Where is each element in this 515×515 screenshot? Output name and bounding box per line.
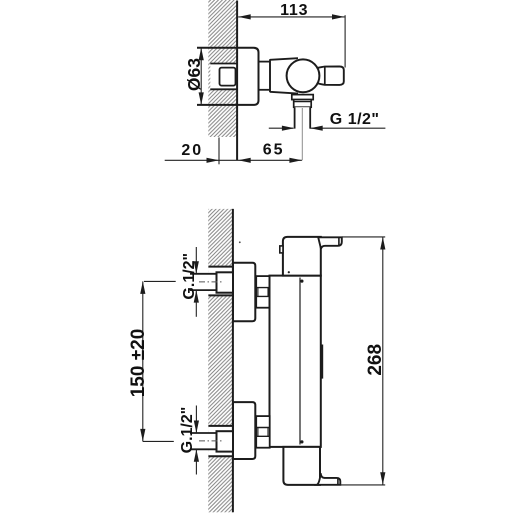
svg-text:150 ±20: 150 ±20 <box>128 329 149 398</box>
dimension Ø63 bottom arrow <box>199 92 204 105</box>
bar inner line <box>299 278 301 445</box>
svg-text:G.1/2": G.1/2" <box>179 407 196 454</box>
top cap (cartridge) <box>283 237 321 276</box>
cap screw dot <box>288 271 290 273</box>
268 top arrow <box>380 237 385 250</box>
top union centerline <box>199 281 224 283</box>
svg-text:113: 113 <box>280 2 308 19</box>
wall hole top edge (lower union) <box>208 425 233 427</box>
lever handle <box>316 67 344 85</box>
collar tube <box>270 58 298 93</box>
wall gap at top union <box>208 267 233 296</box>
bottom supply pipe <box>190 433 217 449</box>
dimension 113 right arrow <box>332 14 345 19</box>
top rosette <box>233 263 255 322</box>
top union nut <box>217 272 234 292</box>
svg-text:20: 20 <box>181 142 203 159</box>
bottom hex connector <box>256 416 270 448</box>
G 1/2 right arrow <box>310 126 323 131</box>
G.1/2 top dim line upper tail <box>195 247 197 274</box>
G.1/2 bottom dim line upper tail <box>195 406 197 433</box>
extension line at lever tip <box>344 15 346 67</box>
in-wall body bottom line <box>210 88 237 90</box>
bottom hex facet lines <box>256 428 270 437</box>
dimension 113 left arrow <box>238 14 251 19</box>
bottom hex facet insets <box>258 428 268 437</box>
cap left tab <box>280 246 283 253</box>
wall recess white notch for in-wall body <box>210 64 237 90</box>
150 bottom extension <box>143 440 174 442</box>
svg-text:Ø63: Ø63 <box>184 58 204 91</box>
G.1/2 top lower arrow <box>194 290 199 303</box>
screw dot bottom <box>300 440 303 443</box>
svg-text:G.1/2": G.1/2" <box>181 253 198 300</box>
G.1/2 bottom lower arrow <box>194 449 199 462</box>
bottom lever (end view) <box>317 473 340 485</box>
handle ball <box>287 59 320 92</box>
20 extension line <box>218 138 220 165</box>
268 bottom extension <box>340 484 385 486</box>
wall hole top edge (upper union) <box>208 266 233 268</box>
right edge tick <box>321 345 323 379</box>
outlet flange <box>292 95 313 100</box>
neck top line <box>259 61 271 63</box>
wall hole bottom edge (lower union) <box>208 455 233 457</box>
G 1/2 dim left segment <box>269 127 294 129</box>
in-wall body top line <box>210 63 237 65</box>
arrow at 20 left <box>207 158 220 163</box>
dimension 150 line <box>142 281 144 441</box>
150 bottom arrow <box>140 429 145 442</box>
G.1/2 top upper arrow <box>194 261 199 274</box>
body bar <box>270 276 321 447</box>
wall hole bottom edge (upper union) <box>208 294 233 296</box>
268 top extension <box>342 236 385 238</box>
wall gap at bottom union <box>208 426 233 456</box>
outlet nut <box>294 100 312 108</box>
arrow at 65 right <box>289 158 302 163</box>
escutcheon plate outline <box>197 48 259 105</box>
bottom rosette <box>233 402 255 459</box>
pipe centerline <box>301 108 303 160</box>
dimension 20/65 line <box>165 159 302 161</box>
svg-text:G 1/2": G 1/2" <box>330 111 380 128</box>
top lever (end view) <box>318 237 342 249</box>
wall hatch (top view wall section) <box>208 0 237 137</box>
top hex facet insets <box>258 288 268 297</box>
dimension 268 line <box>382 237 384 485</box>
bottom union nut <box>217 431 234 451</box>
top supply pipe <box>190 274 217 290</box>
top lever inner line <box>338 237 340 245</box>
wall face line <box>236 1 238 161</box>
G 1/2 dim right segment <box>310 127 385 129</box>
lever step line <box>324 67 326 85</box>
dimension Ø63 top arrow <box>199 48 204 61</box>
G 1/2 left arrow <box>282 126 295 131</box>
G.1/2 top dim line lower tail <box>195 290 197 317</box>
150 top arrow <box>140 281 145 294</box>
stray mark <box>239 241 241 243</box>
150 top extension <box>144 280 176 282</box>
bottom lever inner line <box>337 478 339 485</box>
dimension 113 line <box>238 16 344 18</box>
in-wall square fitting <box>220 68 236 86</box>
bottom cap <box>283 447 320 485</box>
svg-text:65: 65 <box>263 141 285 158</box>
dimension Ø63 line <box>200 48 202 105</box>
268 bottom arrow <box>380 472 385 485</box>
G.1/2 bottom upper arrow <box>194 421 199 434</box>
outlet nut inner line <box>294 101 312 103</box>
top hex facet lines <box>256 288 270 297</box>
outlet pipe <box>295 107 311 128</box>
top hex connector <box>256 276 270 308</box>
svg-text:268: 268 <box>365 344 386 376</box>
screw dot top <box>300 280 303 283</box>
G.1/2 bottom dim line lower tail <box>195 450 197 475</box>
arrow at 65 left <box>238 158 251 163</box>
neck bottom line <box>259 89 271 91</box>
bottom union centerline <box>199 440 224 442</box>
wall hatch (plan) <box>208 209 233 512</box>
wall face line (plan) <box>232 209 234 512</box>
